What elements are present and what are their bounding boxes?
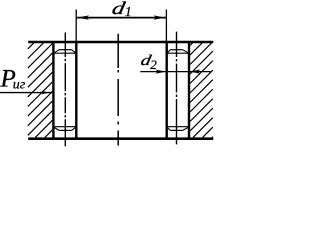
hatching: left housing block section <box>28 43 53 137</box>
bushing left wall (outer, left column) <box>52 42 54 139</box>
top chamfer cone, right column <box>170 49 182 51</box>
bushing left wall (bore side, right column) <box>165 42 167 139</box>
force arrow P <box>0 92 53 94</box>
arrowhead d1 left <box>77 15 89 19</box>
arrowhead d1 right <box>154 15 166 19</box>
centerline: right column axis <box>176 32 178 147</box>
housing bottom face edge <box>28 137 213 140</box>
centerline: left column axis <box>64 33 66 147</box>
bushing right wall (outer, right column) <box>188 42 190 139</box>
bottom chamfer cone, left column <box>53 126 76 128</box>
extension line right for d1 <box>165 10 167 43</box>
top chamfer cone, left column <box>59 49 71 51</box>
svg-text:1: 1 <box>125 5 132 20</box>
hatching: right housing block section <box>190 43 213 137</box>
dimension line d1 <box>76 17 166 19</box>
arrowhead d2 right (points left) <box>190 70 201 74</box>
dimension line d2 <box>140 71 211 73</box>
svg-text:иг: иг <box>13 77 26 92</box>
bottom chamfer cone, right column <box>167 126 189 128</box>
extension line left for d1 <box>75 10 77 43</box>
arrowhead d2 left (points right) <box>155 70 166 74</box>
centerline: middle axis <box>117 34 119 146</box>
svg-text:2: 2 <box>150 57 157 72</box>
bushing right wall (bore side, left column) <box>75 42 77 139</box>
housing top face edge <box>28 41 213 43</box>
